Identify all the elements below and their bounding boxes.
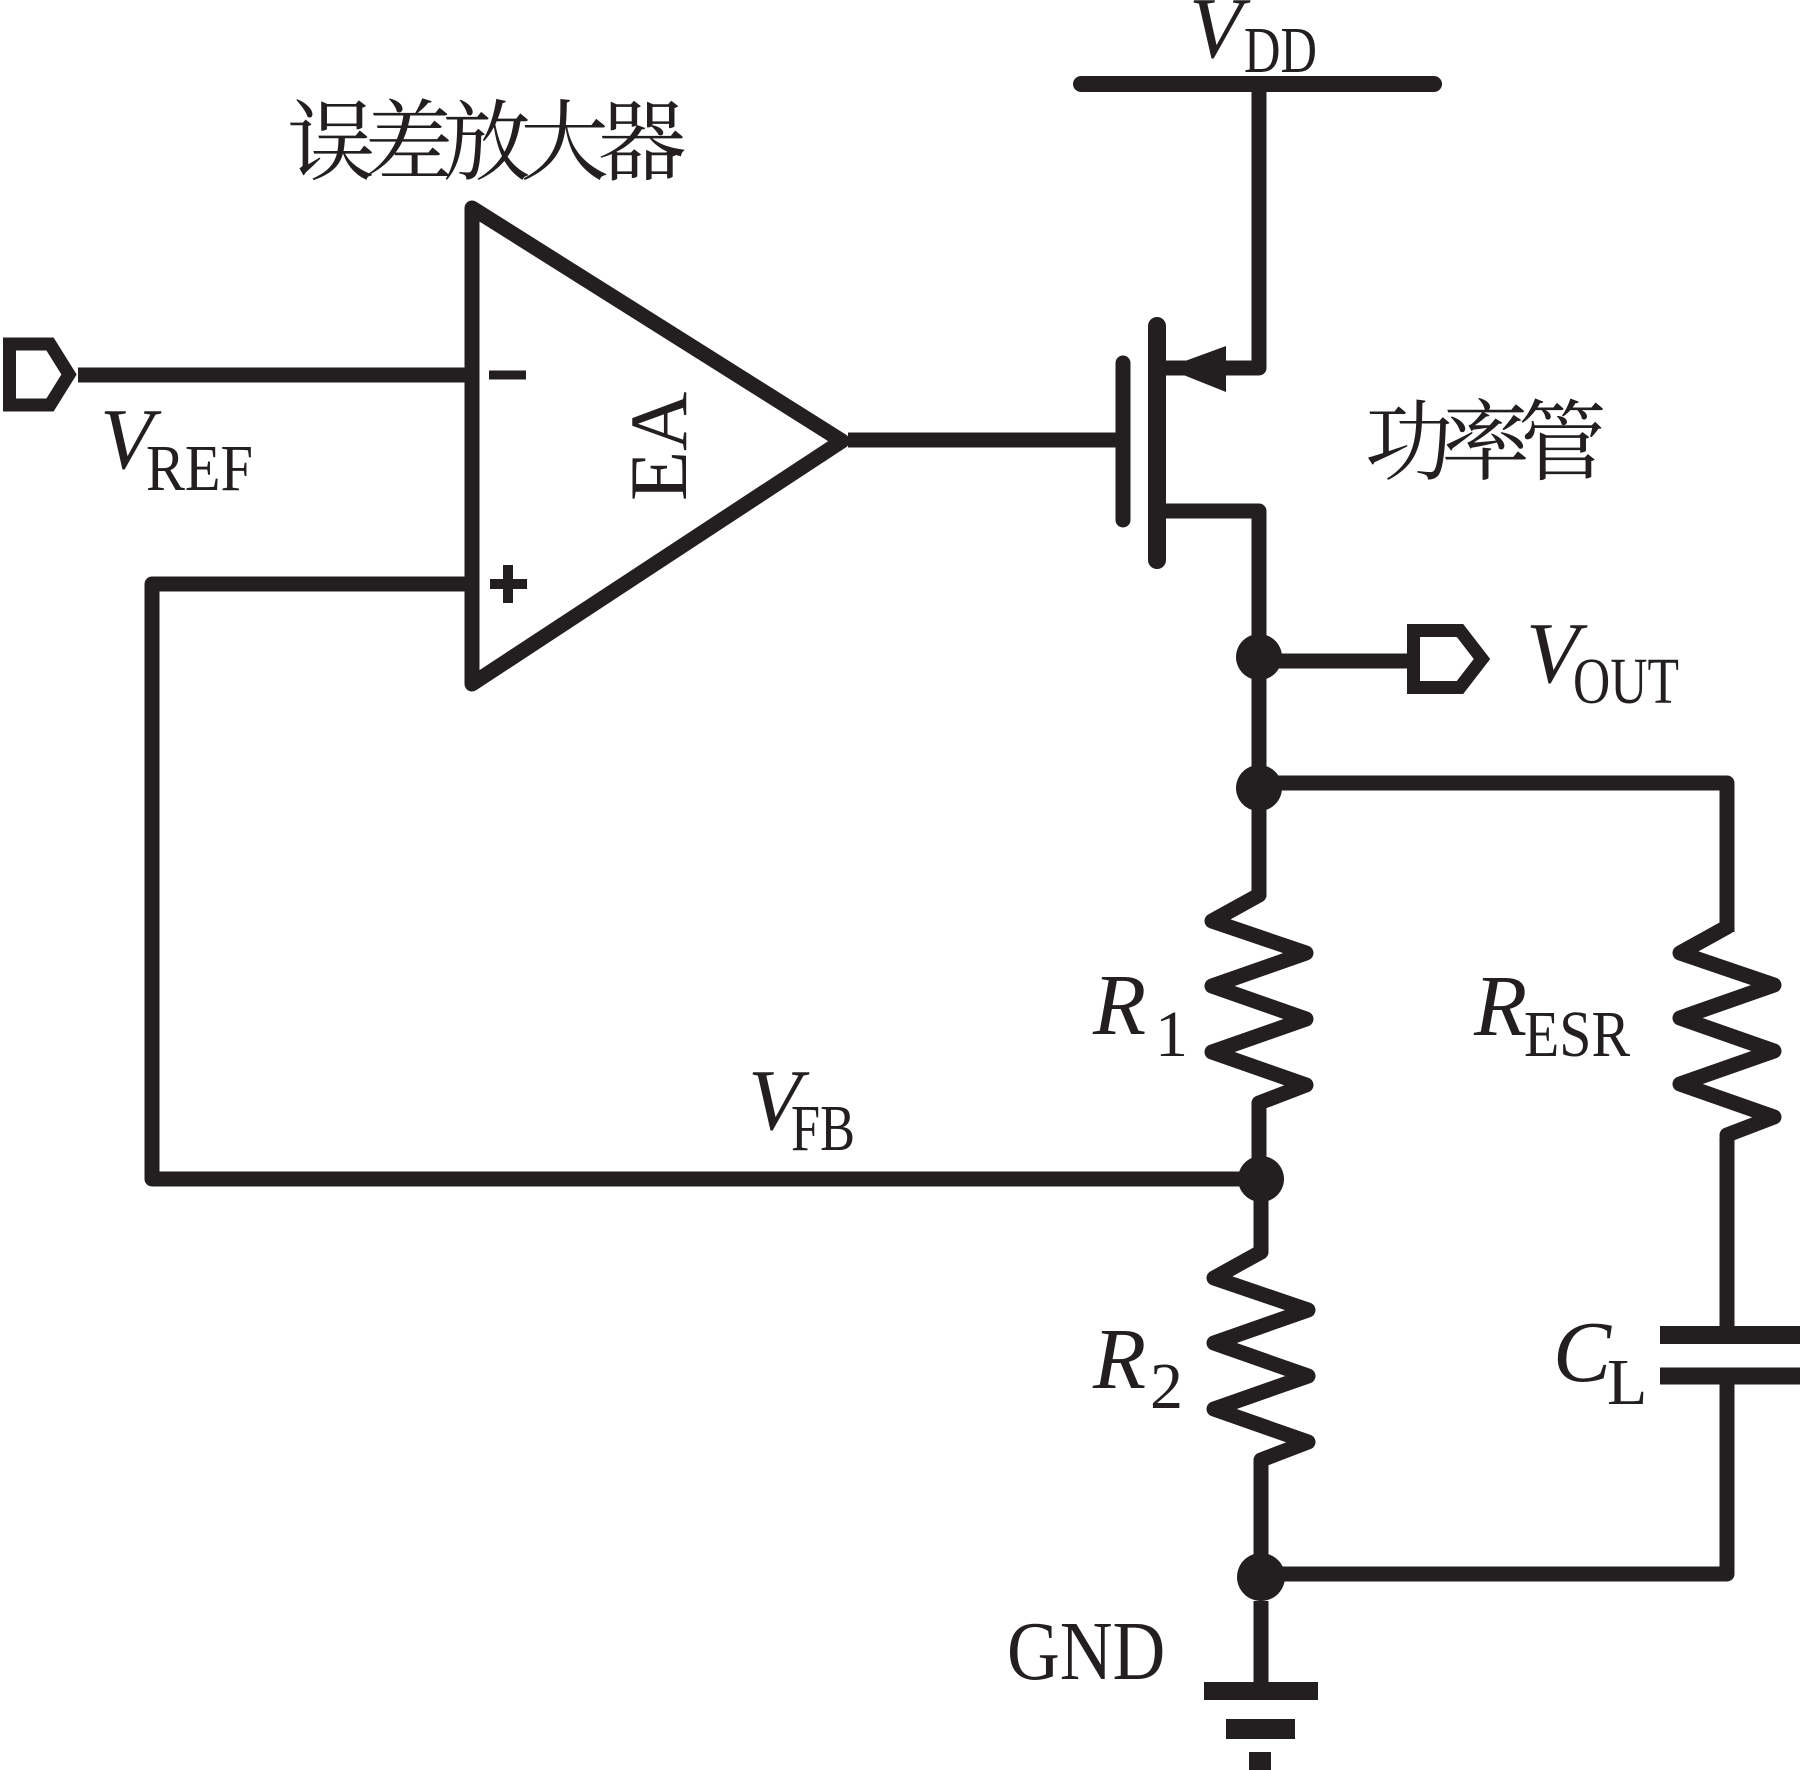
VFB label — [748, 1051, 855, 1165]
svg-text:REF: REF — [146, 432, 253, 505]
op-amp U1 EA triangle — [472, 208, 842, 684]
capacitor CL bottom plate — [1660, 1368, 1800, 1385]
误差放大器 label (error amplifier) — [290, 98, 684, 180]
VREF terminal pentagon — [10, 344, 70, 405]
wire GND node to ground symbol — [1254, 1601, 1269, 1682]
wire VFB node to R2 — [1254, 1179, 1269, 1253]
feedback wire plus input to VFB node — [152, 584, 1261, 1179]
wire op-amp output to gate — [848, 433, 1116, 448]
wire VDD rail to transistor source — [1157, 88, 1259, 368]
VDD power rail — [1081, 76, 1434, 92]
wire VREF terminal to op-amp minus input — [78, 368, 472, 383]
svg-text:R: R — [1092, 956, 1146, 1053]
wire capacitor bottom to GND node — [1261, 1384, 1727, 1574]
transistor Q1 gate bar — [1116, 363, 1131, 520]
svg-text:C: C — [1553, 1303, 1612, 1400]
ground bar 2 — [1226, 1719, 1295, 1739]
node ESR branch junction — [1236, 765, 1282, 811]
RESR label — [1473, 957, 1630, 1071]
op-amp minus input sign — [489, 371, 526, 380]
node GND junction — [1237, 1553, 1285, 1601]
R2 label — [1092, 1310, 1183, 1423]
VOUT label — [1526, 604, 1679, 718]
VDD label — [1189, 0, 1317, 87]
resistor R1 — [1212, 895, 1306, 1103]
svg-text:1: 1 — [1155, 998, 1188, 1071]
VOUT terminal pentagon — [1414, 631, 1483, 688]
wire R2 bottom to GND node — [1254, 1460, 1269, 1577]
wire VOUT node to RESR branch — [1259, 783, 1727, 932]
svg-text:R: R — [1473, 957, 1527, 1054]
transistor Q1 source arrow — [1166, 346, 1226, 392]
svg-text:EA: EA — [613, 392, 704, 501]
CL label — [1553, 1303, 1647, 1419]
op-amp plus input sign — [490, 565, 527, 603]
svg-text:DD: DD — [1244, 14, 1317, 87]
svg-text:V: V — [1189, 0, 1251, 76]
svg-text:L: L — [1607, 1346, 1647, 1419]
svg-text:R: R — [1092, 1310, 1146, 1407]
capacitor CL top plate — [1660, 1326, 1800, 1344]
ground bar 1 — [1204, 1682, 1318, 1700]
wire node to VOUT terminal — [1259, 654, 1413, 669]
wire RESR bottom to capacitor — [1720, 1137, 1735, 1328]
svg-text:FB: FB — [791, 1092, 855, 1165]
node VOUT junction — [1236, 634, 1282, 680]
wire drain down to VOUT node — [1157, 511, 1259, 897]
node VFB junction — [1238, 1156, 1284, 1202]
resistor RESR — [1680, 927, 1774, 1135]
svg-text:OUT: OUT — [1573, 645, 1679, 718]
svg-text:GND: GND — [1007, 1605, 1165, 1698]
R1 label — [1092, 956, 1188, 1071]
svg-text:ESR: ESR — [1524, 998, 1630, 1071]
VREF label — [100, 390, 253, 505]
ground bar 3 — [1249, 1752, 1271, 1770]
svg-text:2: 2 — [1150, 1350, 1183, 1423]
resistor R2 — [1214, 1252, 1308, 1460]
功率管 label (power transistor) — [1368, 398, 1603, 480]
transistor Q1 channel bar — [1148, 326, 1166, 560]
wire R1 bottom to VFB node — [1252, 1103, 1267, 1179]
